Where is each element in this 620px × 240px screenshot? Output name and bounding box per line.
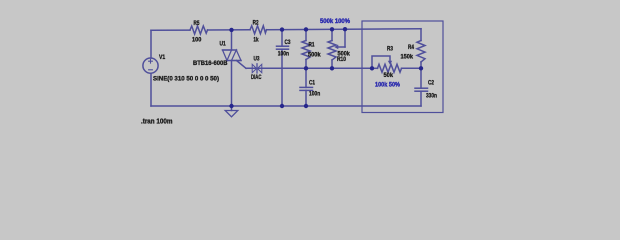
svg-text:C1: C1: [309, 80, 316, 86]
capacitor C2: [415, 68, 428, 106]
junction gate net / R10: [330, 66, 334, 70]
svg-text:150k: 150k: [401, 54, 414, 60]
svg-text:R1: R1: [309, 43, 316, 49]
junction bottom rail / C1: [304, 104, 308, 108]
svg-text:100n: 100n: [278, 52, 289, 58]
junction top rail / R10 wiper: [343, 27, 347, 31]
svg-text:100: 100: [192, 38, 202, 44]
resistor R5: [190, 26, 208, 34]
svg-text:SINE(0 310 50 0 0 0 50): SINE(0 310 50 0 0 0 50): [153, 76, 219, 82]
svg-text:500k: 500k: [308, 53, 321, 59]
junction top rail / R10: [330, 27, 334, 31]
svg-text:R3: R3: [387, 46, 394, 52]
wire gate to diac: [246, 67, 372, 69]
potentiometer R3: [372, 56, 421, 72]
resistor R1: [302, 29, 310, 68]
junction top rail / C3: [280, 27, 284, 31]
svg-text:100n: 100n: [309, 91, 320, 97]
junction bottom rail / C3: [280, 104, 284, 108]
wire bottom rail: [151, 105, 421, 107]
junction bottom rail / U1 ground: [229, 104, 233, 108]
svg-text:C2: C2: [428, 80, 435, 86]
resistor R2: [250, 26, 267, 34]
potentiometer R10: [328, 29, 345, 68]
junction gate net / R1 C1: [304, 66, 308, 70]
voltage source V1: [143, 58, 158, 73]
triac U1: [223, 30, 247, 106]
diac U3: [252, 64, 262, 73]
svg-text:V1: V1: [159, 55, 166, 61]
svg-text:100k 50%: 100k 50%: [375, 82, 401, 88]
capacitor C3: [277, 30, 289, 106]
svg-text:330n: 330n: [426, 93, 437, 99]
svg-text:U1: U1: [220, 42, 227, 48]
junction top rail / U1 anode: [229, 28, 233, 32]
svg-text:DIAC: DIAC: [251, 75, 262, 81]
svg-text:.tran 100m: .tran 100m: [141, 119, 173, 126]
box outline: [362, 21, 443, 113]
svg-text:1k: 1k: [253, 37, 259, 43]
junction gate net / R3: [370, 66, 374, 70]
svg-text:R10: R10: [337, 57, 347, 63]
svg-text:500k 100%: 500k 100%: [320, 19, 351, 25]
wire top rail: [151, 29, 190, 31]
resistor R4: [417, 29, 425, 69]
wire left rail: [150, 30, 152, 58]
junction R3 R4 C2: [419, 66, 423, 70]
svg-text:50k: 50k: [384, 73, 394, 79]
svg-text:BTB16-600B: BTB16-600B: [193, 61, 228, 67]
junction top rail / R1: [304, 27, 308, 31]
capacitor C1: [300, 68, 313, 106]
svg-text:R2: R2: [253, 21, 260, 27]
svg-text:R5: R5: [194, 21, 201, 27]
svg-text:U3: U3: [254, 56, 261, 62]
svg-text:R4: R4: [408, 45, 415, 51]
ground: [225, 106, 238, 117]
svg-text:C3: C3: [285, 40, 292, 46]
